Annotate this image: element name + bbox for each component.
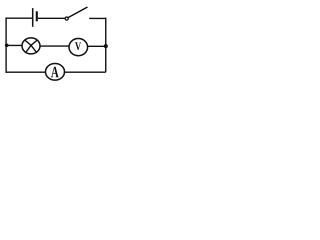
ammeter A1 circle <box>46 64 65 81</box>
battery B1 short thick plate <box>36 11 38 21</box>
wire battery to switch <box>38 17 65 19</box>
wire top-left segment <box>6 17 32 19</box>
wire left vertical <box>5 18 7 73</box>
wire bottom-right segment <box>65 71 106 73</box>
lamp L1 circle <box>22 38 40 54</box>
wire voltmeter to right vertical <box>88 45 106 47</box>
wire middle-left segment <box>6 44 23 46</box>
battery B1 long plate <box>32 8 34 27</box>
wire lamp to voltmeter <box>40 45 69 47</box>
wire right vertical <box>105 18 107 73</box>
voltmeter V1 letter V <box>75 42 81 50</box>
junction node left <box>5 43 9 47</box>
lamp L1 cross stroke right-top to bottom <box>31 40 37 53</box>
lamp L1 cross stroke left-top to bottom <box>25 40 31 53</box>
ammeter A1 letter A <box>51 67 59 78</box>
switch S1 pivot contact circle <box>65 17 68 20</box>
voltmeter V1 circle <box>69 39 88 56</box>
junction node right <box>104 44 108 48</box>
wire top-right segment <box>89 17 106 19</box>
switch S1 open blade <box>68 7 87 18</box>
wire bottom-left segment <box>6 71 46 73</box>
